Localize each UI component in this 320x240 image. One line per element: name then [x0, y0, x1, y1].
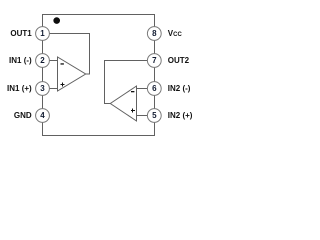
- svg-text:OUT2: OUT2: [168, 56, 190, 65]
- svg-text:3: 3: [40, 84, 45, 93]
- wire pin1 OUT1 to op-amp A output: [49, 34, 89, 75]
- svg-text:IN2 (+): IN2 (+): [168, 111, 193, 120]
- wire pin3 IN1(+) to op-amp A: [49, 88, 57, 90]
- svg-text:GND: GND: [14, 111, 32, 120]
- op-amp U1B triangle: [110, 86, 136, 121]
- op-amp U1B plus input sign: [131, 109, 135, 113]
- svg-text:7: 7: [152, 56, 157, 65]
- wire pin7 OUT2 to op-amp B output: [105, 61, 148, 104]
- pin 3 circle: [36, 82, 50, 96]
- pin 1 indicator dot: [53, 17, 60, 24]
- svg-text:4: 4: [40, 111, 45, 120]
- op-amp U1B minus input sign: [131, 91, 134, 92]
- pin 2 circle: [36, 54, 50, 68]
- pin 7 circle: [147, 54, 161, 68]
- svg-text:2: 2: [40, 56, 45, 65]
- svg-text:8: 8: [152, 29, 157, 38]
- svg-text:IN1 (+): IN1 (+): [7, 84, 32, 93]
- op-amp U1A plus input sign: [61, 83, 65, 87]
- pin 6 circle: [147, 82, 161, 96]
- svg-text:IN1 (-): IN1 (-): [9, 56, 32, 65]
- pin 1 circle: [36, 27, 50, 41]
- pin 5 circle: [147, 109, 161, 123]
- pin 8 circle: [147, 27, 161, 41]
- IC body outline U1: [43, 15, 155, 136]
- wire pin2 IN1(-) to op-amp A: [49, 60, 57, 62]
- wire pin5 IN2(+) to op-amp B: [137, 115, 148, 117]
- svg-text:5: 5: [152, 111, 157, 120]
- svg-text:OUT1: OUT1: [10, 29, 32, 38]
- pin 4 circle: [36, 109, 50, 123]
- wire pin6 IN2(-) to op-amp B: [137, 88, 148, 90]
- op-amp U1A minus input sign: [61, 63, 64, 64]
- svg-text:1: 1: [40, 29, 45, 38]
- op-amp U1A triangle: [58, 57, 86, 91]
- svg-text:IN2 (-): IN2 (-): [168, 84, 191, 93]
- svg-text:6: 6: [152, 84, 157, 93]
